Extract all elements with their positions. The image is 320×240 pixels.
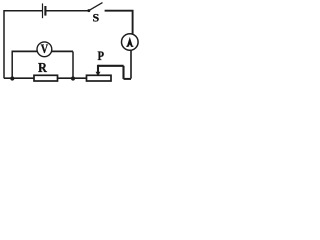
wire bottom (left corner to resistor) bbox=[4, 77, 34, 79]
switch blade (open) bbox=[89, 3, 103, 11]
ammeter A circle bbox=[122, 34, 139, 51]
battery long thin plate bbox=[42, 3, 44, 18]
wire left vertical bbox=[3, 10, 5, 78]
voltmeter branch right vertical bbox=[72, 52, 74, 79]
voltmeter branch left vertical bbox=[11, 52, 13, 79]
voltmeter branch horizontal bbox=[12, 50, 74, 52]
ammeter letter A bbox=[126, 37, 133, 47]
battery short thick plate bbox=[44, 6, 46, 16]
svg-text:P: P bbox=[98, 48, 105, 63]
wire vertical below ammeter bbox=[130, 51, 132, 79]
junction dot left bbox=[10, 76, 14, 80]
wire top-right segment (switch to right corner) bbox=[105, 11, 133, 35]
junction dot right bbox=[71, 76, 75, 80]
switch pivot dot bbox=[87, 9, 90, 12]
wire bottom (resistor to rheostat) bbox=[58, 77, 87, 79]
wire vertical x=123.5 (down from slider wire) bbox=[122, 66, 124, 79]
svg-text:V: V bbox=[41, 42, 49, 56]
wire slider horizontal (thick) bbox=[98, 65, 124, 67]
svg-text:R: R bbox=[38, 59, 47, 75]
wire bottom-right short segment bbox=[124, 78, 132, 80]
voltmeter V circle bbox=[37, 42, 52, 57]
rheostat slider arrow stem bbox=[97, 65, 99, 73]
svg-text:S: S bbox=[93, 11, 100, 25]
rheostat P box bbox=[87, 75, 112, 81]
rheostat slider arrowhead bbox=[96, 72, 101, 76]
wire top-middle segment (battery to switch) bbox=[45, 10, 88, 12]
wire top-left segment (left corner to battery) bbox=[4, 10, 42, 12]
resistor R box bbox=[34, 75, 58, 81]
